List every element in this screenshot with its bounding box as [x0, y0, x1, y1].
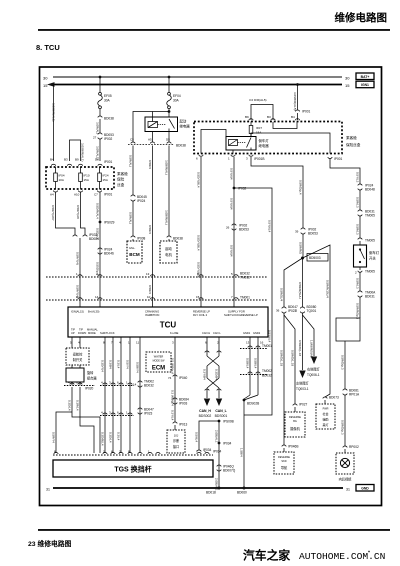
svg-text:继电器: 继电器 — [259, 143, 270, 148]
reverse camera box 摄像机 — [285, 412, 305, 437]
svg-text:倒车灯: 倒车灯 — [259, 138, 270, 143]
svg-text:REVERSE: REVERSE — [278, 456, 290, 459]
node BDS02B merge — [243, 395, 260, 406]
svg-text:BD046: BD046 — [104, 252, 114, 256]
svg-text:IP046B: IP046B — [288, 445, 298, 449]
svg-text:0.3/L4: 0.3/L4 — [117, 432, 121, 441]
svg-text:RP01A: RP01A — [349, 393, 360, 397]
pins B9 B3 B4 — [245, 115, 295, 119]
wire label 3.0R(AL) — [99, 119, 101, 133]
svg-text:D5: D5 — [166, 138, 170, 142]
connector IP001 right — [295, 110, 310, 114]
connector BD053 / IP002 pin 27 — [93, 133, 114, 141]
svg-text:K-LINE: K-LINE — [170, 331, 179, 335]
svg-text:DOWN: DOWN — [78, 331, 86, 335]
connector BD081 / RP01A — [343, 389, 360, 397]
wire IPS00B down to ground bus — [218, 421, 220, 488]
svg-text:0.3D/B4: 0.3D/B4 — [215, 369, 219, 380]
svg-text:0.5B/L4: 0.5B/L4 — [254, 358, 258, 369]
svg-text:1.5B/4: 1.5B/4 — [240, 448, 244, 457]
svg-text:B9: B9 — [245, 115, 249, 119]
svg-text:SHIFTLOCK: SHIFTLOCK — [100, 331, 115, 335]
connector TM005 top — [358, 238, 375, 243]
svg-text:0.5R/R(5p.3: 0.5R/R(5p.3 — [356, 303, 360, 320]
BCM box — [127, 239, 142, 263]
connector BD031 / TM005 — [358, 210, 375, 218]
svg-text:IP024: IP024 — [137, 199, 146, 203]
svg-text:制开关: 制开关 — [73, 357, 83, 362]
connector BD084 / IP003 — [173, 398, 189, 406]
svg-text:27: 27 — [93, 136, 97, 140]
svg-text:BD018: BD018 — [206, 491, 216, 495]
svg-text:TM002: TM002 — [262, 369, 272, 373]
connector IP024 / BD048 — [358, 184, 375, 192]
CAN_L arrow BDS001 — [215, 399, 228, 419]
svg-text:0.5D/Y(BL4: 0.5D/Y(BL4 — [197, 235, 201, 251]
svg-text:IPS029: IPS029 — [104, 221, 115, 225]
relay pins C5 A5 D5 — [130, 132, 170, 143]
svg-text:23 维修电路图: 23 维修电路图 — [28, 539, 72, 548]
svg-text:IP001: IP001 — [104, 160, 113, 164]
svg-text:CAN_H: CAN_H — [199, 409, 211, 413]
svg-text:11: 11 — [136, 341, 139, 345]
TGS shifter box — [53, 460, 213, 477]
header rule — [38, 29, 390, 31]
svg-text:SHIFTLOCK&REVERSE LP: SHIFTLOCK&REVERSE LP — [224, 313, 258, 317]
node IP032 — [233, 187, 247, 191]
svg-text:15: 15 — [196, 295, 200, 299]
svg-text:IF24: IF24 — [103, 174, 109, 178]
svg-text:14: 14 — [133, 383, 137, 387]
svg-text:BD053: BD053 — [308, 232, 318, 236]
branch diag to reverse camera — [284, 315, 295, 404]
svg-text:MANUAL: MANUAL — [87, 328, 98, 332]
svg-text:保险丝盒: 保险丝盒 — [346, 142, 361, 147]
connector row TM002/BD032 gnd — [240, 369, 272, 378]
svg-text:TQ001: TQ001 — [307, 309, 317, 313]
svg-text:30: 30 — [43, 75, 48, 80]
svg-text:TM005: TM005 — [365, 214, 375, 218]
svg-text:GND: GND — [361, 487, 369, 491]
fuse EF05 30A — [98, 92, 112, 108]
svg-text:IP032: IP032 — [238, 187, 247, 191]
svg-text:REVERSE LP: REVERSE LP — [193, 310, 210, 314]
node: relay feed junction — [168, 110, 171, 113]
wire branch to camera feed — [234, 188, 272, 415]
wire box to BD081 — [344, 341, 346, 389]
svg-text:IP013: IP013 — [179, 423, 188, 427]
svg-text:乘客舱: 乘客舱 — [346, 135, 357, 140]
ground chain IPS00B — [218, 420, 234, 424]
svg-text:IP040: IP040 — [179, 376, 188, 380]
svg-text:0.5R/Y(4): 0.5R/Y(4) — [76, 252, 80, 265]
BD5003 down branch to BD080/TQ001 — [302, 258, 304, 307]
svg-text:丝盒: 丝盒 — [117, 182, 125, 187]
connector TM00A / BD031 — [358, 291, 376, 299]
fusebox IP001 dashed box 乘客舱保险丝盒 — [46, 164, 128, 189]
fuse EF04 30A — [167, 92, 181, 108]
svg-text:IF07: IF07 — [256, 126, 262, 130]
CAN_H arrow BDS002 — [199, 399, 212, 419]
svg-text:TIP: TIP — [71, 328, 75, 332]
svg-text:0.5R/R(5L/H: 0.5R/R(5L/H — [298, 282, 302, 299]
svg-text:0.5Y(6)4: 0.5Y(6)4 — [230, 168, 234, 180]
svg-text:0.5R(AL): 0.5R(AL) — [129, 212, 133, 224]
svg-text:CAN H: CAN H — [202, 331, 210, 335]
svg-text:0.5D/Y(BL4: 0.5D/Y(BL4 — [197, 172, 201, 188]
harness row 2 (dashed) — [46, 299, 268, 301]
relay output to IP001 — [251, 133, 330, 154]
svg-text:0.5R/D(p.3: 0.5R/D(p.3 — [341, 355, 345, 370]
node: bus15 junction right — [296, 83, 299, 86]
svg-text:BD038: BD038 — [176, 144, 186, 148]
svg-text:0.5R/Y4: 0.5R/Y4 — [52, 432, 56, 443]
svg-text:BD053: BD053 — [239, 228, 249, 232]
svg-text:IP002: IP002 — [104, 137, 113, 141]
wire drop to IP001 — [297, 85, 299, 111]
svg-text:13: 13 — [246, 341, 250, 345]
svg-text:IP027: IP027 — [299, 403, 308, 407]
svg-text:31: 31 — [346, 488, 350, 492]
reverse lamp switch 倒车灯开关 — [354, 245, 380, 267]
svg-text:IF10: IF10 — [84, 174, 90, 178]
svg-text:0.5D/R(AL4: 0.5D/R(AL4 — [96, 203, 100, 219]
svg-text:0.3D/Y(4: 0.3D/Y(4 — [101, 360, 105, 372]
svg-text:30A: 30A — [104, 99, 111, 103]
fuse IF10 15A — [79, 167, 90, 189]
svg-text:C5: C5 — [130, 138, 134, 142]
connector IP046B — [282, 445, 299, 449]
svg-text:0.5/Y4: 0.5/Y4 — [126, 360, 130, 369]
svg-text:开关: 开关 — [369, 256, 376, 261]
svg-text:辅助: 辅助 — [322, 417, 328, 422]
svg-text:汽车之家: 汽车之家 — [243, 549, 290, 563]
svg-text:0.5 W/B(p.4: 0.5 W/B(p.4 — [171, 358, 175, 374]
svg-text:3.0SB/R(AL1): 3.0SB/R(AL1) — [80, 143, 84, 162]
connector IP024 / BD046 — [98, 248, 114, 256]
svg-text:B4: B4 — [291, 115, 295, 119]
svg-text:SUPPLY FOR: SUPPLY FOR — [228, 310, 245, 314]
wire spur to TGS pin 8 — [56, 412, 72, 453]
wire EF05 drop — [99, 77, 101, 93]
svg-text:BD5003: BD5003 — [309, 256, 321, 260]
wire: feed to C5 leg — [133, 112, 169, 143]
svg-text:IP001B: IP001B — [254, 157, 264, 161]
svg-text:BD007Q: BD007Q — [223, 469, 236, 473]
svg-text:14: 14 — [95, 295, 99, 299]
svg-text:IF04: IF04 — [59, 174, 65, 178]
connector row BD038 under relay — [128, 142, 186, 148]
svg-text:起动: 起动 — [165, 246, 172, 251]
svg-text:内后视镜: 内后视镜 — [339, 477, 353, 482]
svg-text:3.0R(AL): 3.0R(AL) — [96, 122, 100, 134]
connector IP027 — [293, 403, 308, 407]
wire A10 down — [81, 192, 86, 235]
connector BD038 — [98, 116, 114, 120]
svg-text:乘客舱: 乘客舱 — [117, 171, 128, 176]
svg-text:TM001: TM001 — [262, 344, 272, 348]
ground bus 31 — [53, 487, 343, 489]
svg-text:0.3/B4: 0.3/B4 — [109, 360, 113, 369]
jumper loop B9-B3 — [251, 105, 273, 121]
svg-text:0.5R/D(L.18: 0.5R/D(L.18 — [291, 350, 295, 367]
svg-text:1.MU/R(5)AL: 1.MU/R(5)AL — [310, 340, 314, 358]
wire IP001 relay out to reverse switch — [330, 159, 360, 185]
connector IP008 — [131, 236, 146, 240]
svg-text:IP023: IP023 — [144, 412, 153, 416]
svg-text:0.5R(5L/4: 0.5R(5L/4 — [280, 288, 284, 302]
svg-text:UP: UP — [71, 331, 75, 335]
connector IP002 / BD053 pin 39 — [295, 228, 318, 236]
svg-text:BD038: BD038 — [104, 117, 114, 121]
svg-text:0.5R/R(5: 0.5R/R(5 — [299, 242, 303, 254]
connector RP002 — [343, 445, 359, 449]
cruise control switch 巡航控制开关 — [66, 345, 89, 365]
svg-text:IPS00B: IPS00B — [223, 420, 234, 424]
ECM / winter mode switch box — [146, 352, 171, 372]
wire to TCU pin 1/9 — [79, 238, 81, 307]
wire BDS02B to ground bus — [243, 400, 245, 488]
svg-text:B9: B9 — [75, 158, 79, 162]
svg-text:GND2: GND2 — [253, 331, 261, 335]
svg-text:右侧尾灯: 右侧尾灯 — [307, 367, 321, 372]
svg-text:起动: 起动 — [180, 119, 187, 124]
svg-text:BAT+: BAT+ — [361, 75, 370, 79]
node: junction bus30 at EF05 — [99, 76, 102, 79]
bus 15 — [53, 84, 342, 86]
svg-text:0.3/L4: 0.3/L4 — [117, 360, 121, 369]
svg-text:0.5R/Y(A8: 0.5R/Y(A8 — [76, 205, 80, 219]
svg-text:15: 15 — [345, 83, 350, 88]
node BD060 on bus — [237, 487, 247, 495]
svg-text:REVERSE: REVERSE — [289, 416, 301, 419]
TCU bottom pin stubs — [70, 337, 264, 345]
svg-text:WINTER: WINTER — [154, 356, 164, 359]
svg-text:导航: 导航 — [281, 465, 288, 470]
TCU GND1 GND2 wires — [249, 345, 251, 395]
fusebox top pin labels B4 B3 B9 D8 / IP001 — [50, 158, 113, 165]
wire C7 down — [99, 192, 101, 307]
fusebox bottom pins 6 1 3 IP001B — [196, 155, 264, 161]
wire pin1 down / branch — [233, 157, 235, 307]
svg-text:电机: 电机 — [165, 252, 172, 257]
svg-text:0.5R(AL): 0.5R(AL) — [129, 155, 133, 167]
svg-text:0.5R/Y(A87: 0.5R/Y(A87 — [51, 205, 55, 221]
svg-text:BG: BG — [293, 420, 297, 423]
svg-text:CAN L: CAN L — [213, 331, 221, 335]
svg-text:GND1: GND1 — [243, 331, 251, 335]
svg-text:IP034: IP034 — [213, 450, 222, 454]
svg-text:TIP: TIP — [79, 328, 83, 332]
fuse IF24 15A — [98, 167, 109, 189]
svg-text:EF04: EF04 — [173, 94, 181, 98]
BAT+ terminal box — [356, 73, 374, 80]
interior mirror lamp 内后视镜 — [336, 453, 354, 482]
svg-text:3.0 D/R(AL5): 3.0 D/R(AL5) — [249, 98, 267, 102]
wire to D8 — [99, 139, 101, 161]
node IPS029 — [99, 221, 115, 225]
svg-text:B3: B3 — [64, 158, 68, 162]
svg-text:31: 31 — [46, 488, 50, 492]
K-LINE wire — [174, 345, 176, 422]
svg-text:0.5/6L4: 0.5/6L4 — [195, 432, 199, 442]
svg-text:0.5B/Y4: 0.5B/Y4 — [136, 362, 140, 373]
svg-text:CRANKING: CRANKING — [145, 310, 159, 314]
connector BD047 / IP023 pin 36 — [276, 305, 298, 313]
svg-text:旋转: 旋转 — [87, 370, 94, 375]
node IP034 — [218, 442, 232, 446]
fusebox bottom pins A4 A10 C7 / IP001 — [50, 191, 113, 197]
svg-text:RLY COIL 2: RLY COIL 2 — [193, 313, 208, 317]
svg-text:TM001: TM001 — [240, 296, 250, 300]
svg-text:36: 36 — [276, 309, 280, 313]
svg-text:IP001: IP001 — [302, 110, 311, 114]
svg-text:39: 39 — [295, 230, 299, 234]
diagram border frame — [40, 67, 382, 506]
connector BD045 / IP024 — [131, 195, 147, 203]
wire to left tail lamp arrow — [302, 313, 304, 370]
svg-text:BD032: BD032 — [262, 374, 272, 378]
svg-text:BDS002: BDS002 — [199, 414, 212, 418]
connector BD038 starter — [167, 236, 183, 240]
svg-text:社会: 社会 — [322, 411, 328, 416]
svg-text:BD032: BD032 — [144, 384, 154, 388]
svg-text:BD048: BD048 — [365, 188, 375, 192]
svg-text:0.5R/R(15L/4: 0.5R/R(15L/4 — [326, 280, 330, 298]
svg-text:A10: A10 — [74, 193, 80, 197]
svg-text:TM005: TM005 — [365, 270, 375, 274]
connector row TM001 gnd — [240, 344, 272, 349]
svg-text:0.3Y/L4: 0.3Y/L4 — [171, 410, 175, 421]
svg-text:巡航控: 巡航控 — [73, 352, 83, 357]
node BD018 on bus — [206, 487, 221, 495]
clock spring 旋转接合器 — [66, 365, 97, 382]
svg-text:10J: 10J — [174, 434, 179, 438]
svg-text:74: 74 — [168, 376, 172, 380]
svg-text:CAN_L: CAN_L — [215, 409, 226, 413]
svg-text:IP034: IP034 — [223, 442, 232, 446]
svg-text:IP020: IP020 — [85, 387, 94, 391]
svg-text:0.5R/D(p.3: 0.5R/D(p.3 — [341, 420, 345, 435]
wire pin3 to BD5003 feed — [251, 157, 303, 228]
power assist box PWR — [316, 404, 335, 429]
node: junction bus30 at EF04 — [168, 76, 171, 79]
svg-text:0.5R/4: 0.5R/4 — [148, 285, 152, 294]
wire IP020-4 to TGS — [72, 387, 100, 453]
wire: bus15 left drop to B4 — [53, 85, 55, 162]
svg-text:TM012: TM012 — [240, 276, 250, 280]
watermark 汽车之家 AUTOHOME.COM.CN — [243, 549, 385, 563]
fuse IF04 10A — [54, 167, 65, 189]
svg-text:0.5R/D(L.18: 0.5R/D(L.18 — [298, 340, 302, 357]
svg-text:BD031: BD031 — [365, 295, 375, 299]
svg-text:10A: 10A — [59, 178, 64, 182]
jumper loop B3-B4 inside fusebox — [273, 122, 297, 129]
svg-text:PWR: PWR — [323, 408, 329, 411]
svg-text:摄像机: 摄像机 — [290, 426, 300, 431]
IGN1 terminal box — [356, 81, 374, 88]
jumper loop B3-B9 — [70, 140, 81, 161]
svg-text:IP001: IP001 — [104, 193, 113, 197]
svg-text:ECM: ECM — [152, 366, 165, 372]
svg-text:26: 26 — [226, 226, 230, 230]
svg-text:维修电路图: 维修电路图 — [335, 11, 388, 24]
svg-text:IP003: IP003 — [179, 402, 188, 406]
svg-text:INHIBITION: INHIBITION — [145, 313, 159, 317]
svg-text:2.0B(AL1: 2.0B(AL1 — [215, 430, 219, 443]
BD5003 branch up-right — [303, 245, 331, 397]
svg-text:保险: 保险 — [117, 177, 125, 182]
svg-text:A5: A5 — [148, 138, 152, 142]
svg-text:0.3Y/B4: 0.3Y/B4 — [203, 369, 207, 380]
svg-text:13: 13 — [146, 272, 150, 276]
CAN H / CAN L twisted pair — [203, 345, 222, 398]
svg-text:3.0SB/R(AL5): 3.0SB/R(AL5) — [293, 92, 297, 111]
svg-text:BD060: BD060 — [237, 491, 247, 495]
svg-text:C7: C7 — [94, 193, 98, 197]
svg-text:3.0SB/R(AL1): 3.0SB/R(AL1) — [52, 103, 56, 122]
svg-text:0.5R/4: 0.5R/4 — [148, 225, 152, 234]
wire to navigation unit — [283, 313, 285, 445]
svg-text:MODE: MODE — [88, 331, 96, 335]
wire EF04 drop — [168, 77, 170, 93]
relay U1 起动继电器 box — [145, 117, 190, 132]
wire BD081 to RP002 — [344, 395, 346, 446]
svg-text:0.5Y(6)4: 0.5Y(6)4 — [230, 198, 234, 210]
wire below EF05 — [99, 109, 101, 116]
svg-text:BCM: BCM — [129, 252, 140, 257]
svg-text:0.5B/L4: 0.5B/L4 — [246, 358, 250, 369]
svg-text:TCU: TCU — [160, 321, 177, 330]
svg-text:TQ003-1: TQ003-1 — [296, 387, 309, 391]
connector row fragment y415 pins 4 3 — [100, 411, 134, 416]
svg-text:BD038: BD038 — [173, 237, 183, 241]
diagnostic connector 10J 诊断接口 — [167, 425, 185, 453]
svg-text:EF05: EF05 — [104, 94, 112, 98]
svg-text:0.5R/L3: 0.5R/L3 — [356, 278, 360, 289]
connector IP046Q / BD007Q — [217, 465, 236, 473]
svg-text:诊断: 诊断 — [173, 438, 180, 443]
connector row IP020 pins 4 6 — [64, 381, 95, 391]
wire TCU pin 11 chain — [139, 345, 141, 453]
TGS connector row — [53, 450, 222, 456]
svg-text:接合器: 接合器 — [87, 376, 97, 381]
svg-text:BD073: BD073 — [329, 396, 339, 400]
svg-text:0.5Y(6L4: 0.5Y(6L4 — [268, 220, 272, 233]
svg-text:TGS 换挡杆: TGS 换挡杆 — [114, 465, 151, 474]
svg-text:B3: B3 — [267, 115, 271, 119]
wires TCU pins to TGS straight — [104, 345, 106, 453]
fuse IF07 15A — [249, 122, 262, 138]
wire C5 down to BD045 — [132, 146, 134, 196]
connector BD073 — [323, 396, 339, 400]
svg-text:B+(AL30): B+(AL30) — [88, 310, 100, 314]
wire: feed to coil leg — [152, 112, 154, 122]
svg-text:TM005: TM005 — [365, 239, 375, 243]
svg-text:0.5R/4: 0.5R/4 — [148, 160, 152, 169]
junction box (reverse lamp jumper) — [336, 318, 360, 341]
svg-text:15A: 15A — [103, 178, 108, 182]
wire A5 down to TCU pin 13 — [152, 146, 154, 308]
wire pin6 to TCU pin 6/15 — [200, 157, 202, 307]
wire D5 down to starter — [168, 146, 170, 237]
connector IP033 / BD084 — [73, 233, 99, 241]
svg-text:0.3R/L4: 0.3R/L4 — [76, 400, 80, 411]
svg-text:IP008: IP008 — [137, 237, 146, 241]
svg-text:0.5D/Y(BL4: 0.5D/Y(BL4 — [197, 262, 201, 278]
svg-text:0.5R/L3: 0.5R/L3 — [356, 224, 360, 235]
svg-text:0.3D/L4: 0.3D/L4 — [109, 432, 113, 443]
